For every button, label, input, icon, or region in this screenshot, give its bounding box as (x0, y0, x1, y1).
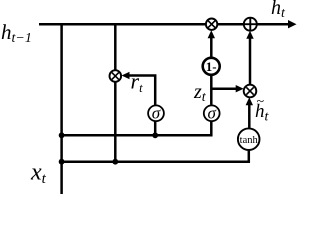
1- circle (203, 58, 220, 75)
junction dot sigma_r column (152, 132, 158, 138)
reset multiply node (110, 70, 122, 82)
multiply node on h line (1-z gate) (206, 19, 217, 30)
tanh circle (238, 128, 260, 150)
wire: sigma_r bottom stub (154, 122, 157, 137)
svg-text:σ: σ (208, 104, 217, 123)
svg-text:tanh: tanh (240, 135, 259, 146)
wire: 1- circle up to multiply on h line, arrow up (210, 36, 213, 58)
svg-text:~: ~ (257, 95, 265, 110)
wire: top h line (39, 23, 290, 26)
plus node (output adder) (244, 18, 257, 31)
sigma_z circle (204, 105, 220, 121)
junction dot reset column (112, 159, 118, 165)
wire: z branch right to multiply, arrow right (211, 87, 237, 90)
wire: z column sigma_z up to 1- circle (210, 76, 213, 105)
junction dot left upper (59, 132, 65, 138)
wire: tanh up to z-multiply, arrow up (248, 103, 251, 128)
wire: second vertical through reset multiply (114, 23, 117, 162)
z multiply node (244, 85, 257, 98)
wire: left vertical (h_t-1 / x_t bus) (60, 23, 63, 194)
wire: horizontal gate-input line to sigma_z (62, 122, 212, 136)
wire: output arrowhead to h_t (288, 20, 297, 28)
wire: r_t path from sigma_r to reset multiply, arrow left (128, 76, 155, 106)
junction dot left lower (59, 159, 65, 165)
svg-text:σ: σ (152, 104, 161, 123)
sigma_r circle (148, 105, 164, 121)
svg-text:1-: 1- (206, 59, 217, 74)
wire: bottom x_t line to tanh (62, 150, 249, 161)
wire: z-multiply up to plus circle, arrow up (249, 37, 252, 85)
